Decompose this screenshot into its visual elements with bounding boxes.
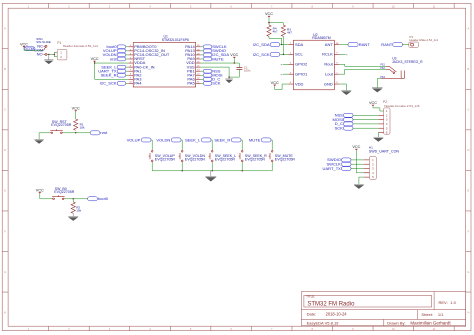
svg-text:A: A	[468, 27, 470, 31]
title block	[301, 292, 465, 326]
power flag VCC at I2C pullups	[265, 12, 273, 17]
resistor R2 10k	[71, 199, 82, 214]
svg-text:GND: GND	[324, 81, 333, 86]
svg-text:RANT: RANT	[359, 42, 371, 47]
wire VCC to U2 VDD	[275, 84, 289, 89]
svg-text:EVQ22705R: EVQ22705R	[215, 157, 236, 161]
ground below U2	[341, 90, 351, 95]
svg-text:VCC: VCC	[271, 81, 279, 85]
net label nrst (source)	[90, 130, 108, 135]
switch SW1 SW-SLIDE	[34, 37, 51, 57]
svg-text:SEEK_R: SEEK_R	[101, 73, 117, 78]
capacitor C1 100n	[236, 65, 250, 72]
svg-text:Header-Female-2.54_1x2: Header-Female-2.54_1x2	[63, 44, 99, 48]
net label SEEK_R (button)	[214, 137, 241, 142]
wire VCC to R4/R3 tops	[268, 18, 283, 26]
svg-text:VCC: VCC	[265, 12, 273, 16]
wire VCC to SW_B0	[40, 194, 52, 199]
wire SW1 NO to P1 pin1 and pin2	[47, 52, 57, 56]
svg-text:Drawn By:: Drawn By:	[387, 320, 405, 325]
svg-text:10k: 10k	[80, 126, 85, 130]
svg-text:B: B	[468, 67, 470, 71]
power flag VCC at SW_B0	[36, 188, 44, 193]
svg-text:RCLK: RCLK	[322, 52, 333, 57]
connector P1 Header-Female-2.54_1x2	[57, 41, 98, 60]
power flag VCC at U2 VDD	[271, 81, 279, 86]
no-connect stub RCLK	[339, 53, 348, 57]
net label MOSI (to P2)	[333, 117, 379, 122]
net label nrst (U1 left)	[110, 56, 128, 61]
ground at SW_RST	[35, 139, 44, 143]
svg-text:nrst: nrst	[100, 130, 108, 135]
svg-text:Maximilian Gerhardt: Maximilian Gerhardt	[410, 321, 451, 326]
net label SWDIO (to H1)	[327, 157, 364, 162]
svg-text:Rout: Rout	[324, 62, 333, 67]
ground at button bus	[205, 171, 216, 182]
svg-text:D: D	[4, 148, 6, 152]
net label boot0 (source)	[88, 196, 109, 201]
net label RANT (to P3)	[381, 42, 402, 47]
net label SWCLK (U1 right)	[201, 44, 227, 49]
net label I2C_SDA (to U2)	[253, 42, 289, 47]
svg-text:SCK: SCK	[212, 81, 221, 86]
net label SWCLK (to H1)	[326, 162, 364, 167]
connector P3 Header-Male-2.54_1x1	[409, 35, 439, 48]
svg-text:100n: 100n	[244, 68, 251, 72]
svg-text:C: C	[467, 108, 469, 112]
ground bus wire under buttons	[152, 170, 272, 171]
svg-text:4k7: 4k7	[287, 31, 292, 35]
switch SW_VOLDN EVQ22705R	[179, 150, 206, 161]
svg-text:4k7: 4k7	[273, 29, 278, 33]
resistor R4 4k7	[267, 25, 278, 36]
switch SW_MUTE EVQ22705R	[269, 150, 296, 161]
resistor R3 4k7	[281, 25, 292, 36]
svg-text:ANT: ANT	[325, 42, 334, 47]
svg-text:PA5: PA5	[187, 81, 195, 86]
svg-text:nrst: nrst	[110, 56, 118, 61]
net label D_C (U1 right)	[201, 77, 221, 82]
svg-text:1/1: 1/1	[438, 312, 444, 317]
switch SW_B0 EVQ22705R	[52, 187, 75, 200]
wire RANT to P3	[402, 44, 408, 46]
svg-text:Date:: Date:	[307, 312, 317, 317]
svg-text:VOLDN: VOLDN	[156, 137, 170, 142]
MCU U1 STM32L011F4P6	[128, 34, 200, 87]
svg-text:Header-Female-2.54_1x6: Header-Female-2.54_1x6	[384, 104, 420, 108]
svg-text:B: B	[4, 67, 6, 71]
wire VCC to R1	[75, 112, 77, 119]
svg-text:VCC: VCC	[230, 53, 238, 57]
svg-text:SEEK_L: SEEK_L	[185, 137, 201, 142]
svg-text:I2C_SDA: I2C_SDA	[253, 42, 270, 47]
svg-text:G: G	[467, 270, 469, 274]
wire SW_VOLUP to ground bus	[151, 162, 153, 171]
net label NSS (U1 right)	[201, 68, 221, 73]
wire VCC to H1 pin4	[356, 151, 369, 173]
svg-text:RDA5807M: RDA5807M	[312, 36, 331, 40]
svg-text:RANT: RANT	[381, 42, 393, 47]
svg-text:EasyEDA V5.8.19: EasyEDA V5.8.19	[307, 320, 340, 325]
svg-text:EVQ22705R: EVQ22705R	[185, 157, 206, 161]
svg-text:Lout: Lout	[325, 71, 334, 76]
wire R4 to SDA net	[269, 36, 282, 45]
power flag VCC (battery input)	[20, 42, 28, 47]
svg-text:H: H	[467, 310, 469, 314]
svg-text:10k: 10k	[76, 208, 81, 212]
svg-text:EVQ22705R: EVQ22705R	[275, 157, 296, 161]
net label UART_TX (U1 left)	[98, 68, 128, 73]
wire VCC to SW1 COM	[24, 48, 44, 51]
net label 3COM	[24, 47, 35, 51]
svg-text:TITLE:: TITLE:	[306, 295, 315, 299]
ground below R2	[68, 213, 78, 221]
svg-text:A: A	[4, 27, 6, 31]
svg-text:VDD: VDD	[295, 81, 304, 86]
svg-text:EVQ22705R: EVQ22705R	[245, 157, 266, 161]
svg-text:VCC: VCC	[36, 188, 44, 192]
svg-text:SCK: SCK	[335, 126, 344, 131]
wire R3 to SCL net	[283, 36, 284, 55]
svg-text:G: G	[4, 270, 6, 274]
net label MUTE (U1 right)	[201, 56, 224, 61]
wire jack sleeve to ground	[377, 79, 381, 88]
svg-text:VCC: VCC	[91, 57, 99, 61]
radio IC U2 RDA5807M	[289, 33, 340, 90]
svg-text:E: E	[4, 189, 6, 193]
wire SW_VOLDN to ground bus	[181, 162, 183, 171]
svg-text:MUTE: MUTE	[249, 137, 261, 142]
svg-text:MUTE: MUTE	[212, 56, 224, 61]
net label UART_TX (to H1)	[323, 166, 364, 171]
switch SW_SEEK_L EVQ22705R	[209, 150, 237, 161]
svg-text:NO: NO	[37, 52, 43, 57]
net label SCK (to P2)	[335, 126, 379, 131]
ground below jack	[372, 88, 383, 93]
net label I2C_SCK (to U2)	[253, 52, 289, 57]
wire U2 Rout to jack tip	[339, 64, 386, 66]
switch SW_SEEK_R EVQ22705R	[239, 150, 268, 161]
svg-text:JACK3_STEREO_R: JACK3_STEREO_R	[392, 60, 423, 64]
svg-text:I2C_SCK: I2C_SCK	[100, 81, 117, 86]
no-connect stubs GPIO2/GPIO1	[280, 62, 288, 76]
connector H1 SWD_UART_CON	[364, 145, 399, 179]
svg-text:STM32L011F4P6: STM32L011F4P6	[162, 38, 189, 42]
wire SW_B0 to boot0 label and R2	[65, 198, 88, 199]
power flag VCC at P2	[369, 101, 377, 106]
svg-text:GPIO2: GPIO2	[295, 62, 308, 67]
net label D_C (to P2)	[335, 121, 379, 126]
wire U2 Lout to jack ring	[339, 69, 386, 74]
power flag VCC at SW_RST	[72, 107, 80, 112]
svg-text:GPIO1: GPIO1	[295, 71, 308, 76]
ground below P2	[373, 137, 383, 142]
net label I2C_SCK (U1 left)	[100, 81, 129, 86]
svg-text:VCC: VCC	[369, 101, 377, 105]
switch SW_VOLUP EVQ22705R	[149, 150, 176, 161]
svg-text:SCL: SCL	[295, 52, 304, 57]
net label VOLDN (button)	[156, 137, 181, 142]
wire SW_SEEK_R to ground bus	[241, 162, 243, 171]
svg-text:EVQ22705R: EVQ22705R	[51, 123, 72, 127]
svg-text:I2C_SCK: I2C_SCK	[253, 52, 270, 57]
svg-text:PA4: PA4	[134, 81, 142, 86]
svg-text:2018-10-24: 2018-10-24	[326, 312, 348, 317]
wire H1 pin5 to ground	[359, 177, 364, 184]
resistor R1 10k	[74, 119, 85, 130]
audio jack U3 JACK3_STEREO_R	[380, 56, 423, 79]
ground below SW1	[44, 54, 53, 64]
svg-text:EVQ22705R: EVQ22705R	[54, 190, 75, 194]
svg-text:SDA: SDA	[295, 42, 304, 47]
ground below H1	[354, 184, 364, 189]
wire SW_MUTE to ground bus	[271, 162, 273, 171]
switch SW_RST EVQ22705R	[50, 120, 72, 134]
net label RANT (from U2 ANT)	[339, 42, 370, 47]
net label NSS (to P2)	[335, 113, 379, 118]
wire VCC to VDDA	[94, 62, 128, 64]
svg-text:REV:: REV:	[439, 300, 448, 305]
power flag VCC at H1	[352, 145, 360, 150]
net label SEEK_L (U1 left)	[101, 64, 128, 69]
net label VOLUP (U1 left)	[103, 48, 128, 53]
svg-text:P1: P1	[57, 41, 61, 45]
svg-text:VCC: VCC	[72, 107, 80, 111]
net label SEEK_L (button)	[185, 137, 211, 142]
svg-text:VOLUP: VOLUP	[127, 137, 141, 142]
wire VOLUP to button	[151, 140, 152, 150]
net label boot0 (U1 left)	[106, 44, 128, 49]
net label I2C_SDA (U1 right)	[201, 52, 230, 57]
wire VCC to P2 pin1	[373, 106, 384, 111]
wire SW_RST left to ground	[39, 133, 50, 140]
wire U1 VDD to VCC and C1	[201, 59, 240, 68]
wire U1 VSS to ground and C1 bottom	[201, 67, 240, 78]
svg-text:boot0: boot0	[98, 196, 109, 201]
net label VOLDN (U1 left)	[103, 52, 129, 57]
wire SEEK_R to button	[241, 140, 242, 150]
svg-text:P$2: P$2	[380, 66, 385, 70]
wire MUTE to button	[271, 140, 272, 150]
svg-text:SWD_UART_CON: SWD_UART_CON	[369, 149, 399, 153]
wire P2 pin6 to ground	[377, 133, 379, 138]
svg-text:E: E	[468, 189, 470, 193]
svg-text:UART_TX: UART_TX	[323, 166, 342, 171]
wire VCC to PA3	[95, 63, 129, 79]
net label MOSI (U1 right)	[201, 73, 223, 78]
svg-text:EVQ22705R: EVQ22705R	[155, 157, 176, 161]
net label SCK (U1 right)	[201, 81, 221, 86]
svg-text:1.0: 1.0	[450, 300, 456, 305]
power flag VCC at U1 VDDA/PA3	[91, 57, 99, 62]
svg-text:Header-Male-2.54_1x1: Header-Male-2.54_1x1	[409, 38, 438, 42]
svg-text:D: D	[467, 148, 469, 152]
net label VOLUP (button)	[127, 137, 151, 142]
svg-text:Sheet:: Sheet:	[421, 312, 433, 317]
wire SEEK_L to button	[211, 140, 212, 150]
net label SWDIO (U1 right)	[201, 48, 226, 53]
wire U2 GND to ground	[339, 84, 346, 90]
wire SW_SEEK_L to ground bus	[211, 162, 213, 171]
ground below C1	[225, 77, 233, 83]
wire SW_RST to nrst label	[63, 132, 90, 133]
connector P2 Header-Female-2.54_1x6	[378, 100, 419, 134]
svg-text:VCC: VCC	[352, 145, 360, 149]
svg-text:STM32 FM Radio: STM32 FM Radio	[307, 301, 355, 307]
net label SEEK_R (U1 left)	[101, 73, 129, 78]
svg-text:SEEK_R: SEEK_R	[214, 137, 230, 142]
net label MUTE (button)	[249, 137, 271, 142]
svg-text:C: C	[4, 108, 6, 112]
svg-text:VCC: VCC	[20, 42, 28, 46]
power flag VCC at U1 VDD	[230, 53, 238, 58]
wire VOLDN to button	[181, 140, 182, 150]
svg-text:H: H	[4, 310, 6, 314]
